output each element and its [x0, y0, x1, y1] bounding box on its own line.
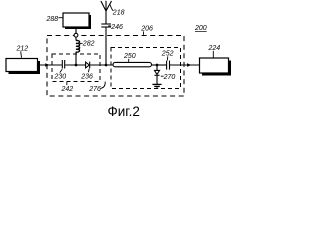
capacitor 246 [101, 24, 111, 27]
svg-text:252: 252 [161, 51, 174, 58]
diode 236 [86, 62, 90, 69]
svg-text:282: 282 [82, 41, 95, 48]
label 252 [161, 51, 174, 61]
svg-text:288: 288 [46, 16, 59, 23]
label 282 [80, 41, 95, 48]
dashed box 242 (matching network) [52, 54, 100, 82]
svg-text:242: 242 [61, 86, 74, 93]
svg-text:224: 224 [208, 45, 221, 52]
block 288 [63, 13, 91, 29]
dashed box 206 [47, 36, 184, 97]
svg-text:206: 206 [140, 25, 153, 32]
block 224 [200, 58, 232, 76]
wire: box288 down to node [75, 27, 77, 33]
svg-text:200: 200 [194, 25, 207, 32]
label 270 [161, 74, 176, 81]
label 246 [108, 24, 123, 31]
label 206 [140, 25, 153, 34]
node terminal on box 206 [74, 33, 78, 37]
wire: cap252 to box224 [170, 64, 200, 66]
ground [152, 84, 161, 88]
svg-text:218: 218 [112, 10, 125, 17]
wire: inductor to junction [75, 52, 77, 65]
label 276 [88, 82, 105, 93]
wire: line250 to cap252 [152, 64, 167, 66]
transmission line 250 [113, 62, 152, 66]
svg-text:246: 246 [110, 24, 123, 31]
wire: node to inductor [75, 37, 77, 40]
label 250 [123, 53, 136, 62]
svg-text:270: 270 [163, 74, 176, 81]
inductor 282 [76, 40, 80, 52]
label 230 [54, 69, 67, 80]
svg-text:250: 250 [123, 53, 136, 60]
svg-text:Фиг.2: Фиг.2 [108, 104, 140, 119]
dashed box 276 (detector) [111, 48, 181, 89]
junction dot C [156, 64, 159, 67]
junction dot A [75, 64, 78, 67]
capacitor 252 [167, 61, 170, 70]
wire: diode236 to line250 [90, 64, 113, 66]
wire: cap246 to junction B [105, 28, 107, 66]
label 218 [110, 5, 125, 17]
arrow into network [45, 63, 49, 67]
svg-text:236: 236 [80, 73, 93, 80]
label 236 [80, 69, 93, 81]
label 212 [16, 46, 29, 58]
label 288 [46, 16, 64, 23]
wire: diode 270 to ground [156, 76, 158, 84]
label 224 [208, 45, 221, 58]
capacitor 230 [62, 60, 64, 69]
svg-text:276: 276 [88, 86, 101, 93]
wire: box212 to cap230 [40, 64, 62, 66]
wire: junction C down to diode 270 [156, 65, 158, 70]
wire: cap230 to diode236 [65, 64, 85, 66]
svg-text:230: 230 [54, 73, 67, 80]
block 212 [6, 59, 40, 75]
svg-text:212: 212 [16, 46, 29, 53]
junction dot B [105, 64, 108, 67]
label 200 [194, 25, 207, 32]
antenna 218 [101, 1, 112, 24]
diode 270 [155, 70, 160, 75]
arrow into box 224 [187, 63, 191, 67]
label 242 [61, 82, 74, 93]
